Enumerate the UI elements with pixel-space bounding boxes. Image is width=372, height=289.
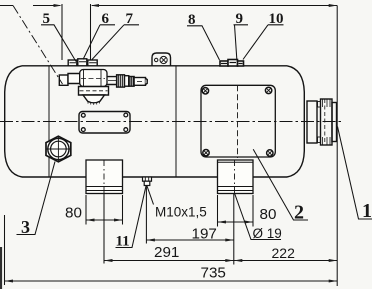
svg-text:Ø 19: Ø 19: [253, 226, 282, 241]
svg-text:80: 80: [260, 206, 277, 223]
svg-text:291: 291: [154, 244, 179, 261]
svg-text:11: 11: [116, 234, 130, 250]
svg-text:735: 735: [201, 265, 226, 282]
svg-text:8: 8: [188, 12, 196, 28]
svg-text:3: 3: [21, 217, 30, 237]
svg-text:M10x1,5: M10x1,5: [155, 205, 207, 220]
svg-text:2: 2: [294, 202, 304, 224]
svg-text:7: 7: [126, 11, 134, 27]
svg-text:6: 6: [102, 11, 110, 27]
svg-text:1: 1: [362, 200, 372, 222]
svg-text:5: 5: [43, 11, 51, 27]
svg-text:222: 222: [272, 245, 296, 261]
svg-text:9: 9: [236, 11, 244, 27]
svg-text:10: 10: [269, 11, 284, 27]
svg-text:80: 80: [65, 205, 82, 222]
svg-text:197: 197: [192, 226, 217, 243]
